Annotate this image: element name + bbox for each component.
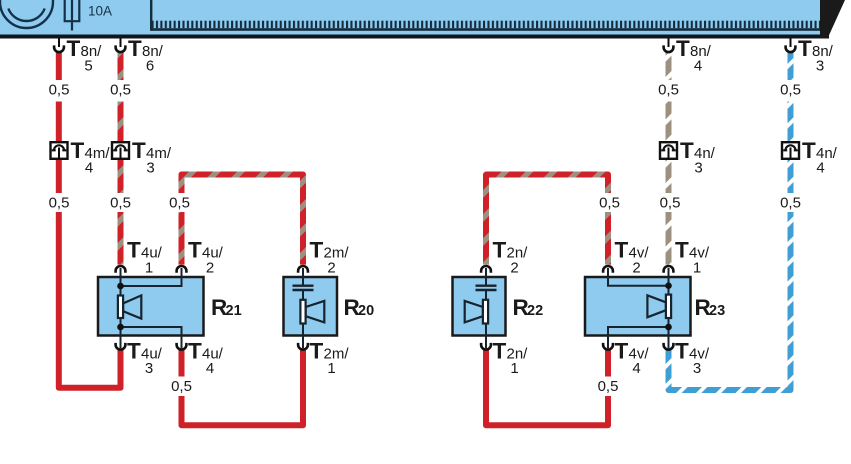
svg-text:10A: 10A <box>88 4 112 19</box>
wire T8n/5 red: bus to T4u/3 <box>59 53 121 388</box>
svg-text:0,5: 0,5 <box>49 195 70 212</box>
fuse 10A <box>65 0 80 31</box>
cup T4u/3 <box>116 343 126 350</box>
svg-text:2: 2 <box>206 260 214 277</box>
R22 speaker cone <box>465 301 483 323</box>
R22 speaker coil <box>483 300 488 324</box>
stub T8n/3 <box>790 39 792 48</box>
R21 internal wiring <box>121 268 182 348</box>
black wedge top-right <box>820 0 845 39</box>
ruler comb teeth <box>152 21 821 29</box>
cup T2m/2 <box>298 266 308 273</box>
svg-text:1: 1 <box>327 360 335 377</box>
connector T4n/4 <box>782 142 799 159</box>
svg-text:2: 2 <box>327 260 335 277</box>
svg-text:T: T <box>127 339 141 364</box>
label T8n/4 <box>676 36 712 75</box>
svg-text:T: T <box>310 238 324 263</box>
ruler comb baseline <box>152 28 821 31</box>
ruler comb start line <box>150 0 152 31</box>
svg-text:20: 20 <box>358 303 374 319</box>
svg-text:0,5: 0,5 <box>169 195 190 212</box>
svg-text:T: T <box>310 339 324 364</box>
svg-text:3: 3 <box>694 160 702 177</box>
svg-text:4: 4 <box>694 58 702 75</box>
R20 speaker cone <box>306 301 325 323</box>
speaker R23 box <box>585 277 691 336</box>
R21 speaker cone <box>123 295 141 318</box>
wire gaps for 0,5 labels <box>54 80 797 396</box>
svg-text:T: T <box>132 138 146 163</box>
label R22 <box>513 295 544 320</box>
cup T2m/1 <box>298 343 308 350</box>
R20 capacitor <box>293 286 314 290</box>
stub T8n/5 <box>58 39 60 48</box>
wire T2n/1 to T4v/4 red <box>486 348 608 425</box>
svg-text:0,5: 0,5 <box>49 82 70 99</box>
wire size 0,5 row2 <box>49 195 801 212</box>
R23 speaker cone <box>647 295 666 317</box>
cup T8n/4 <box>664 45 674 52</box>
svg-text:0,5: 0,5 <box>171 378 192 395</box>
svg-text:T: T <box>680 138 694 163</box>
svg-text:0,5: 0,5 <box>599 195 620 212</box>
svg-text:2: 2 <box>510 260 518 277</box>
label R20 <box>344 295 375 320</box>
label R23 <box>695 295 726 320</box>
cup T4v/4 <box>603 343 613 350</box>
wire size 0,5 bottom row <box>171 378 618 395</box>
svg-text:0,5: 0,5 <box>660 195 681 212</box>
svg-text:4: 4 <box>816 160 824 177</box>
svg-text:0,5: 0,5 <box>780 82 801 99</box>
svg-text:3: 3 <box>693 360 701 377</box>
wire T8n/3 blue/white: bus to T4v/3 <box>669 53 791 391</box>
cup T4v/3 <box>664 343 674 350</box>
svg-text:T: T <box>128 36 142 61</box>
label T8n/6 <box>128 36 164 75</box>
cup T8n/6 <box>116 45 126 52</box>
svg-text:T: T <box>675 238 689 263</box>
R20 internal wiring <box>302 268 304 348</box>
cup T4v/2 <box>603 266 613 273</box>
wire T2n/2 to T4v/2 red/grey <box>486 175 608 265</box>
stub T8n/6 <box>120 39 122 48</box>
svg-text:T: T <box>798 36 812 61</box>
svg-text:6: 6 <box>146 58 154 75</box>
svg-text:T: T <box>615 339 629 364</box>
svg-text:23: 23 <box>709 303 725 319</box>
svg-text:T: T <box>188 339 202 364</box>
svg-text:3: 3 <box>146 160 154 177</box>
svg-text:0,5: 0,5 <box>598 378 619 395</box>
svg-text:4: 4 <box>206 360 214 377</box>
svg-text:5: 5 <box>84 58 92 75</box>
svg-text:T: T <box>188 238 202 263</box>
svg-text:T: T <box>127 238 141 263</box>
cup T8n/3 <box>786 45 796 52</box>
cup T4u/2 <box>177 266 187 273</box>
cup T4v/1 <box>664 266 674 273</box>
svg-text:0,5: 0,5 <box>110 195 131 212</box>
wire size 0,5 row1 <box>49 82 801 99</box>
wire T8n/6 red/grey: bus to T4u/1 <box>118 53 124 265</box>
horn symbol circle (top-left) <box>0 0 53 28</box>
svg-text:T: T <box>615 238 629 263</box>
cup T4u/4 <box>177 343 187 350</box>
speaker R20 box <box>284 277 338 336</box>
bus bar 30 (blue band) <box>0 0 822 39</box>
wire T4u/2 to T2m/2 red/grey <box>182 175 304 265</box>
R23 internal wiring <box>608 268 669 348</box>
speaker R21 box <box>98 277 204 336</box>
svg-text:4: 4 <box>632 360 640 377</box>
R20 speaker coil <box>300 300 305 324</box>
R23 junction dots <box>665 282 672 289</box>
R21 speaker coil <box>118 296 123 319</box>
svg-text:2: 2 <box>632 260 640 277</box>
R21 junction dots <box>117 283 124 290</box>
connector T4m/3 <box>112 142 129 159</box>
svg-text:22: 22 <box>527 303 543 319</box>
svg-text:0,5: 0,5 <box>110 82 131 99</box>
cup T2n/2 <box>481 266 491 273</box>
cup T2n/1 <box>481 343 491 350</box>
band bottom border <box>0 35 829 39</box>
R22 internal wiring <box>485 268 487 348</box>
label T8n/3 <box>798 36 834 75</box>
svg-text:T: T <box>67 36 81 61</box>
speaker R22 box <box>453 277 506 336</box>
svg-text:1: 1 <box>693 260 701 277</box>
R23 speaker coil <box>666 295 671 318</box>
wire T8n/4 grey/white: bus to T4v/1 <box>666 53 672 265</box>
cup T8n/5 <box>54 45 64 52</box>
svg-text:T: T <box>676 36 690 61</box>
svg-text:3: 3 <box>145 360 153 377</box>
svg-text:0,5: 0,5 <box>780 195 801 212</box>
R22 capacitor <box>476 286 497 290</box>
label T8n/5 <box>67 36 103 75</box>
svg-text:T: T <box>71 138 85 163</box>
svg-text:T: T <box>802 138 816 163</box>
svg-text:3: 3 <box>816 58 824 75</box>
wire T4u/4 to T2m/1 red <box>182 348 304 425</box>
svg-text:T: T <box>675 339 689 364</box>
svg-text:1: 1 <box>510 360 518 377</box>
svg-text:0,5: 0,5 <box>658 82 679 99</box>
svg-text:1: 1 <box>145 260 153 277</box>
svg-text:T: T <box>493 238 507 263</box>
stub T8n/4 <box>668 39 670 48</box>
svg-text:4: 4 <box>85 160 93 177</box>
connector T4n/3 <box>660 142 677 159</box>
svg-text:21: 21 <box>226 303 242 319</box>
cup T4u/1 <box>116 266 126 273</box>
svg-text:T: T <box>493 339 507 364</box>
connector T4m/4 <box>51 142 68 159</box>
label R21 <box>211 295 242 320</box>
